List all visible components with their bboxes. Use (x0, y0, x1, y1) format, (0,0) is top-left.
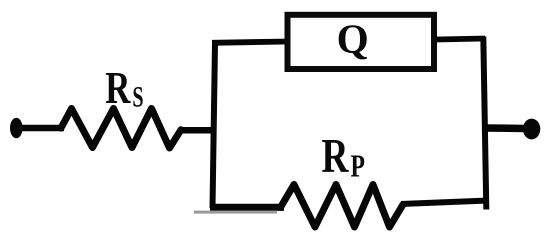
svg-text:R: R (322, 129, 350, 183)
resistor RP zigzag (281, 185, 404, 228)
wire RP to node B (bottom branch) (401, 201, 488, 205)
node B right vertical bar (483, 37, 486, 210)
svg-text:P: P (351, 149, 365, 184)
svg-text:Q: Q (337, 16, 369, 62)
scan shadow under bottom-left wire (194, 211, 277, 214)
wire node A to RP (bottom branch) (210, 204, 284, 211)
wire RS to node A (179, 127, 216, 134)
wire Q box to node B (top branch) (436, 39, 485, 40)
svg-text:S: S (132, 79, 143, 113)
wire node A to Q box (top branch) (212, 42, 288, 43)
svg-text:R: R (105, 63, 131, 114)
resistor RS zigzag (61, 109, 181, 149)
wire left lead (14, 125, 64, 132)
terminal dot right (523, 119, 540, 140)
wire right lead (485, 124, 527, 132)
CPE box Q (288, 15, 435, 69)
terminal dot left (10, 118, 23, 139)
node A left vertical bar (213, 43, 216, 208)
